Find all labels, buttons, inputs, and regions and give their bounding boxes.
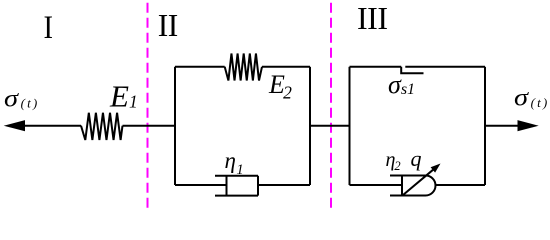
svg-text:I: I bbox=[44, 10, 54, 46]
svg-text:III: III bbox=[357, 0, 387, 36]
svg-text:II: II bbox=[158, 8, 178, 43]
svg-text:q: q bbox=[411, 146, 422, 171]
